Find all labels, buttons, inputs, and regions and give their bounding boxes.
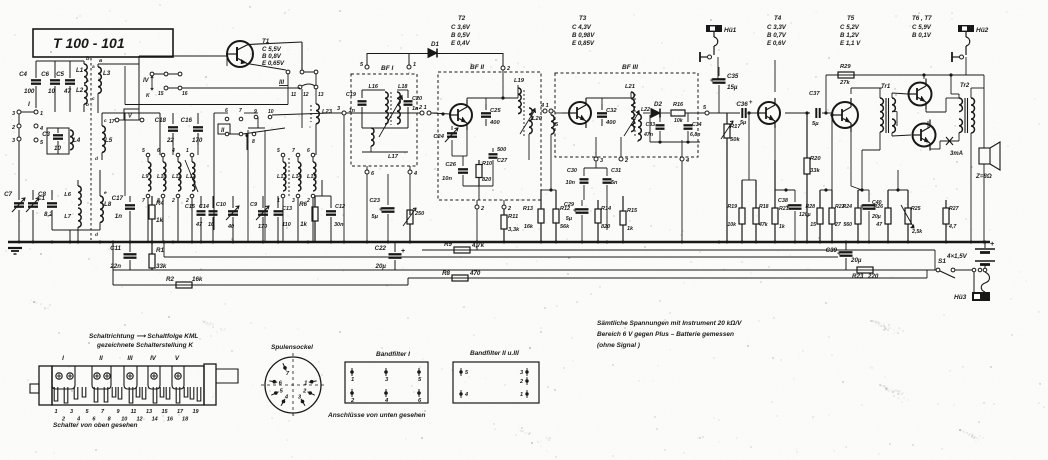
inductor L22 right	[550, 113, 552, 115]
svg-text:L4: L4	[73, 137, 81, 144]
capacitor C14	[212, 196, 214, 208]
svg-text:5µ: 5µ	[740, 120, 747, 126]
inductor L7	[78, 208, 81, 227]
terminal 6 BFI	[365, 170, 369, 174]
capacitor C16	[197, 113, 199, 124]
svg-text:C5: C5	[56, 71, 64, 78]
inductor L22b	[638, 114, 641, 140]
inductor L14	[296, 153, 300, 157]
svg-text:1n: 1n	[115, 213, 122, 220]
svg-text:Tr2: Tr2	[960, 83, 970, 89]
svg-text:220: 220	[867, 273, 879, 280]
svg-text:R29: R29	[840, 64, 851, 70]
svg-text:9: 9	[254, 109, 257, 115]
svg-text:C16: C16	[181, 117, 193, 124]
terminal 4	[34, 124, 38, 128]
wire BF1 through line	[351, 112, 420, 114]
svg-text:L20: L20	[532, 116, 543, 122]
svg-text:T6 , T7: T6 , T7	[912, 15, 932, 22]
inductor L8	[100, 196, 103, 222]
svg-text:C39: C39	[826, 247, 838, 254]
inductor L11	[176, 153, 180, 157]
svg-text:1: 1	[520, 392, 523, 398]
svg-text:16: 16	[167, 417, 174, 423]
svg-text:C14: C14	[199, 204, 209, 210]
svg-text:gezeichnete Schalterstellung K: gezeichnete Schalterstellung K	[96, 342, 194, 349]
svg-text:+: +	[573, 208, 577, 215]
wire L20 bottom	[528, 134, 530, 160]
svg-text:C 3,3V: C 3,3V	[767, 24, 787, 31]
svg-text:50k: 50k	[730, 137, 740, 143]
resistor R29	[838, 72, 854, 78]
svg-text:C4: C4	[19, 71, 27, 78]
svg-text:C23: C23	[369, 198, 380, 204]
svg-text:C13: C13	[282, 206, 292, 212]
terminal 2 BFII top	[501, 66, 505, 70]
svg-text:R15: R15	[627, 208, 638, 214]
svg-text:I: I	[62, 355, 64, 362]
inductor L12	[190, 153, 194, 157]
switch contact pair V	[286, 70, 290, 74]
svg-text:4: 4	[413, 171, 417, 177]
svg-text:B 0,1V: B 0,1V	[912, 32, 932, 39]
wire ant bottoms	[52, 229, 100, 231]
svg-text:820: 820	[601, 224, 610, 230]
bandfilter box BF III	[555, 73, 698, 157]
svg-text:2: 2	[11, 125, 15, 131]
svg-text:+: +	[837, 251, 841, 258]
wire contact 13 to L23	[315, 74, 317, 85]
svg-text:R23: R23	[852, 273, 864, 280]
wire R19 R18 top	[742, 179, 756, 181]
arrow BF2 L20	[520, 110, 535, 134]
wire top rail to BF2	[367, 53, 503, 55]
svg-text:L16: L16	[369, 84, 379, 90]
svg-text:a: a	[99, 58, 102, 64]
svg-text:R11: R11	[508, 214, 518, 220]
svg-text:e: e	[104, 191, 107, 196]
svg-text:2: 2	[480, 206, 484, 212]
svg-text:C37: C37	[809, 91, 820, 97]
svg-text:L3: L3	[103, 70, 111, 77]
svg-text:L9: L9	[142, 174, 149, 180]
svg-text:R8: R8	[442, 270, 450, 277]
svg-text:5µ: 5µ	[566, 216, 573, 222]
transistor T2	[450, 104, 472, 126]
svg-text:17: 17	[109, 119, 115, 125]
capacitor C10 variable	[232, 196, 234, 208]
svg-text:2,5k: 2,5k	[911, 229, 923, 235]
wire Hue2 drop	[965, 57, 967, 75]
wire R6 C12 top	[315, 195, 331, 197]
svg-text:Z=8Ω: Z=8Ω	[975, 173, 992, 180]
svg-text:+: +	[749, 100, 753, 106]
wire T3 base	[562, 112, 569, 114]
svg-text:T1: T1	[262, 38, 270, 45]
wire BF1 out down	[409, 174, 411, 215]
svg-text:3: 3	[292, 198, 295, 204]
svg-text:R6: R6	[299, 201, 307, 208]
capacitor C34	[687, 113, 689, 122]
svg-text:C26: C26	[445, 162, 456, 168]
wire 477 down	[476, 209, 478, 250]
wafer box V	[124, 109, 139, 120]
svg-text:a: a	[92, 65, 95, 70]
inductor L15	[311, 153, 315, 157]
capacitor C39	[845, 242, 847, 250]
svg-text:27: 27	[834, 222, 842, 228]
wire rail 75	[826, 74, 984, 76]
wire antenna top rail	[36, 60, 84, 62]
svg-text:5µ: 5µ	[371, 214, 378, 220]
dashed core BF2	[523, 90, 525, 136]
svg-text:47: 47	[63, 88, 71, 95]
svg-text:R2: R2	[166, 276, 174, 283]
capacitor C7 variable	[18, 196, 20, 200]
wire T4 emitter/collector	[774, 60, 776, 92]
svg-text:C24: C24	[433, 134, 444, 140]
inductor L9	[146, 153, 150, 157]
transistor T5	[832, 102, 858, 128]
svg-text:3: 3	[12, 111, 15, 117]
terminal 5 BF3	[705, 111, 709, 115]
capacitor C11	[129, 242, 131, 252]
resistor R26	[887, 190, 889, 208]
svg-text:4,7: 4,7	[948, 224, 957, 230]
svg-text:5n: 5n	[611, 180, 618, 186]
svg-text:R4: R4	[156, 200, 164, 207]
svg-text:IV: IV	[150, 355, 157, 362]
resistor R5 variable	[409, 210, 411, 215]
svg-text:C 5,2V: C 5,2V	[840, 24, 860, 31]
terminal pair 2 1	[420, 111, 424, 115]
svg-text:4: 4	[464, 392, 468, 398]
svg-text:C25: C25	[490, 108, 501, 114]
capacitor C17	[129, 196, 131, 202]
svg-text:S1: S1	[938, 258, 946, 265]
svg-text:5: 5	[277, 148, 280, 154]
wire L22 to divider	[541, 189, 556, 191]
svg-text:40: 40	[227, 224, 234, 230]
terminal 17b	[140, 118, 144, 122]
capacitor C30	[583, 168, 585, 176]
terminal 1	[34, 110, 38, 114]
wire ant left	[18, 114, 20, 124]
switch left tab	[30, 384, 39, 393]
inductor L19	[517, 85, 519, 88]
svg-text:R28: R28	[805, 204, 815, 210]
svg-text:T 100 - 101: T 100 - 101	[53, 35, 125, 51]
svg-text:56k: 56k	[560, 224, 570, 230]
svg-text:L15: L15	[307, 174, 317, 180]
resistor R15	[622, 196, 624, 211]
wire T2 emitter down	[466, 126, 468, 156]
speaker	[979, 148, 990, 164]
svg-text:8,2: 8,2	[44, 211, 53, 218]
svg-text:6: 6	[157, 148, 160, 154]
svg-text:C 3,6V: C 3,6V	[451, 24, 471, 31]
svg-text:Sämtliche Spannungen mit In: Sämtliche Spannungen mit Instrument 20 k…	[597, 320, 742, 327]
svg-text:C7: C7	[4, 191, 12, 198]
svg-text:47: 47	[875, 222, 883, 228]
svg-text:30n: 30n	[334, 222, 344, 228]
resistor R18	[755, 180, 757, 208]
svg-text:10: 10	[268, 109, 274, 115]
svg-text:3: 3	[337, 106, 340, 112]
svg-text:7: 7	[292, 148, 295, 154]
switch assembly drawing	[52, 366, 204, 405]
wire contact 12 down	[301, 89, 303, 128]
svg-text:16k: 16k	[524, 224, 534, 230]
svg-text:+: +	[379, 207, 383, 214]
svg-text:3mA: 3mA	[950, 151, 963, 157]
capacitor C8 variable	[32, 190, 34, 200]
svg-text:Bereich 6 V gegen Plus – Bat: Bereich 6 V gegen Plus – Batterie gemess…	[597, 331, 734, 338]
wire T2 base	[431, 113, 450, 114]
wire into BF2 top	[502, 53, 504, 66]
wire BF3 bottom	[650, 141, 700, 143]
svg-text:10: 10	[208, 222, 214, 228]
svg-text:1: 1	[186, 148, 189, 154]
svg-text:E 1,1 V: E 1,1 V	[840, 40, 861, 47]
wire bus R2/R8	[113, 284, 408, 286]
svg-text:16: 16	[182, 91, 188, 97]
svg-text:2: 2	[624, 158, 628, 164]
svg-text:L23: L23	[322, 109, 333, 115]
svg-text:C30: C30	[567, 168, 577, 174]
svg-text:L14: L14	[292, 174, 301, 180]
svg-text:3: 3	[600, 158, 603, 164]
wire emitter ties	[775, 189, 795, 191]
svg-text:400: 400	[605, 120, 616, 126]
wire wafer rails	[182, 87, 300, 89]
svg-text:500: 500	[497, 147, 506, 153]
capacitor C12	[330, 196, 332, 208]
terminal 17	[115, 118, 119, 122]
jack Hue3	[973, 272, 975, 292]
svg-text:10k: 10k	[727, 222, 737, 228]
svg-text:15µ: 15µ	[727, 84, 738, 91]
svg-text:2: 2	[507, 206, 511, 212]
svg-text:+: +	[860, 204, 864, 211]
svg-text:+: +	[786, 204, 790, 211]
wire switch col	[138, 56, 140, 113]
wire C18 drop	[172, 145, 174, 155]
capacitor C1	[51, 190, 53, 200]
svg-text:R20: R20	[810, 156, 821, 162]
resistor R24	[857, 190, 859, 208]
terminal 3b	[17, 137, 21, 141]
svg-text:10: 10	[54, 145, 61, 152]
svg-text:R27: R27	[949, 206, 960, 212]
svg-text:170: 170	[192, 137, 203, 144]
svg-text:13: 13	[146, 409, 152, 415]
svg-text:B 0,7V: B 0,7V	[767, 32, 787, 39]
svg-text:C6: C6	[41, 71, 49, 78]
svg-text:1n: 1n	[412, 106, 419, 112]
svg-text:15: 15	[810, 222, 816, 228]
resistor R17 variable	[726, 113, 728, 124]
svg-text:C31: C31	[611, 168, 621, 174]
transistor T6	[909, 83, 932, 106]
svg-text:C3: C3	[42, 131, 50, 138]
wire tie 927	[926, 270, 928, 278]
wire bus R23 S1	[113, 269, 940, 271]
svg-text:Hü3: Hü3	[954, 294, 967, 301]
svg-text:47k: 47k	[758, 222, 769, 228]
svg-text:3: 3	[70, 409, 73, 415]
junction dots on ground bus	[18, 241, 21, 244]
wire mid verticals 2	[247, 130, 249, 242]
wire signal line to T4	[710, 112, 740, 114]
inductor L20	[529, 108, 532, 134]
svg-text:10n: 10n	[442, 176, 452, 182]
svg-text:2: 2	[171, 198, 175, 204]
svg-text:11: 11	[131, 409, 137, 415]
svg-text:2: 2	[506, 66, 510, 72]
svg-text:12: 12	[303, 92, 309, 98]
svg-text:C11: C11	[110, 245, 121, 252]
capacitor C35	[718, 67, 720, 76]
svg-text:L2: L2	[76, 87, 84, 94]
svg-text:C36: C36	[736, 101, 748, 108]
svg-text:Spulensockel: Spulensockel	[271, 344, 313, 351]
capacitor C38	[794, 190, 796, 202]
dashed core line antenna	[90, 58, 92, 240]
svg-text:47: 47	[195, 222, 203, 228]
svg-text:E 0,6V: E 0,6V	[767, 40, 786, 47]
switch wafer II	[218, 124, 230, 134]
wire T2 collector net	[466, 98, 468, 104]
svg-text:T3: T3	[579, 15, 587, 22]
capacitor C40	[868, 190, 870, 202]
svg-text:20µ: 20µ	[850, 257, 862, 264]
svg-text:7: 7	[142, 198, 145, 204]
svg-text:c: c	[104, 119, 107, 124]
capacitor C29	[581, 200, 583, 206]
svg-text:33k: 33k	[810, 168, 820, 174]
svg-text:R25: R25	[911, 206, 921, 212]
diode D1	[428, 49, 437, 58]
capacitor C13	[277, 196, 279, 208]
svg-text:1n: 1n	[349, 108, 356, 114]
speckle clusters	[874, 320, 876, 322]
capacitor C4	[35, 61, 37, 78]
terminal 5 BFI	[365, 65, 369, 69]
wire T5 base divider	[831, 115, 833, 190]
jack Hue2	[958, 25, 974, 32]
svg-text:250: 250	[414, 211, 424, 217]
resistor R23	[857, 267, 873, 273]
svg-text:C29: C29	[564, 202, 575, 208]
svg-text:C18: C18	[155, 117, 167, 124]
svg-text:C17: C17	[112, 195, 124, 202]
svg-text:11: 11	[291, 92, 296, 98]
terminal 1 BFI	[407, 65, 411, 69]
svg-text:C19: C19	[346, 92, 357, 98]
svg-text:1: 1	[54, 409, 57, 415]
ground	[8, 247, 22, 249]
wire tie 935	[934, 250, 936, 270]
transistor T4	[758, 102, 780, 124]
svg-text:400: 400	[489, 120, 500, 126]
svg-text:+: +	[401, 248, 405, 255]
svg-text:170: 170	[258, 224, 267, 230]
dashed core BF1	[390, 92, 392, 125]
inductor L4	[70, 130, 73, 150]
bandfilter box BF I	[351, 74, 417, 166]
svg-text:+: +	[990, 239, 995, 248]
wire BF2 top terminal drop	[502, 70, 504, 98]
wire C37 junction	[824, 111, 827, 114]
svg-text:33k: 33k	[156, 263, 167, 270]
terminal 4 BFI	[408, 170, 412, 174]
capacitor C24 variable	[451, 126, 453, 130]
wire T1 base rail	[139, 55, 227, 57]
resistor R8	[452, 275, 468, 281]
svg-text:B 1,2V: B 1,2V	[840, 32, 860, 39]
wire drop to R2 line	[112, 242, 114, 285]
svg-text:C35: C35	[727, 73, 739, 80]
svg-text:E 0,65V: E 0,65V	[262, 60, 285, 67]
svg-text:BF I: BF I	[381, 65, 393, 72]
wire BF2 bottom net	[463, 185, 493, 187]
svg-text:III: III	[127, 355, 132, 362]
svg-text:C9: C9	[250, 202, 258, 208]
dashed core BF3	[634, 94, 636, 138]
svg-text:E 0,85V: E 0,85V	[572, 40, 595, 47]
svg-text:Schalter von oben gesehen: Schalter von oben gesehen	[53, 422, 138, 429]
svg-text:c: c	[92, 97, 95, 102]
svg-text:II: II	[221, 128, 225, 134]
terminal 4 BF3	[680, 157, 684, 161]
wire T1 collector	[248, 42, 302, 45]
svg-text:L6: L6	[64, 192, 72, 198]
svg-text:R9: R9	[444, 241, 452, 248]
capacitor C15	[200, 196, 202, 208]
svg-text:C38: C38	[778, 198, 789, 204]
wire output collectors	[923, 75, 925, 79]
resistor R20	[806, 113, 808, 158]
capacitor C20 BF1	[407, 90, 409, 98]
svg-text:C32: C32	[606, 108, 617, 114]
svg-text:1k: 1k	[300, 221, 307, 228]
svg-text:4: 4	[685, 158, 689, 164]
battery 4x1,5V	[984, 242, 986, 248]
svg-text:10n: 10n	[566, 180, 576, 186]
svg-text:Anschlüsse von unten gesehen: Anschlüsse von unten gesehen	[327, 412, 426, 419]
inductor L18	[397, 92, 400, 124]
inductor L5	[102, 126, 105, 152]
inductor L13	[281, 153, 285, 157]
resistor R16	[671, 110, 685, 116]
capacitor C26	[462, 156, 464, 166]
wire switch verticals	[159, 113, 161, 155]
svg-text:L13: L13	[277, 174, 286, 180]
svg-text:L17: L17	[388, 154, 399, 160]
svg-text:5µ: 5µ	[812, 121, 819, 127]
inductor L16	[385, 92, 388, 124]
speckle	[473, 256, 474, 257]
svg-text:II: II	[99, 355, 103, 362]
arrow BF1 transformer	[379, 97, 402, 137]
inductor L6	[78, 186, 81, 205]
capacitor C27	[492, 148, 494, 152]
terminal 2 BF3	[619, 157, 623, 161]
capacitor C9 variable	[262, 196, 264, 208]
svg-text:3,3k: 3,3k	[508, 227, 520, 233]
capacitor C25	[485, 104, 487, 110]
